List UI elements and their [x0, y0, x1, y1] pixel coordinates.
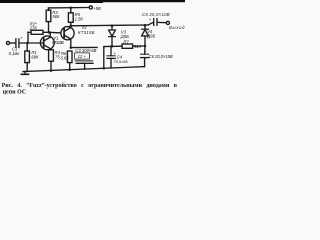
svg-text:R7: R7	[123, 39, 129, 44]
svg-text:Выход: Выход	[169, 25, 185, 30]
svg-text:+9В: +9В	[93, 6, 101, 11]
svg-text:Д9Б: Д9Б	[146, 34, 155, 39]
svg-text:КТ315Б: КТ315Б	[78, 30, 95, 35]
svg-text:3,6К: 3,6К	[60, 55, 69, 60]
svg-text:27К: 27К	[29, 26, 38, 31]
svg-text:Д9Б: Д9Б	[120, 34, 129, 39]
svg-text:С3 300×6В: С3 300×6В	[75, 48, 96, 53]
svg-text:70,5×6Б: 70,5×6Б	[114, 60, 129, 64]
svg-text:Рис. 4. “Fuzz”-устройство с ог: Рис. 4. “Fuzz”-устройство с ограничитель…	[2, 82, 178, 89]
svg-text:56К: 56К	[52, 14, 60, 19]
svg-text:С4: С4	[117, 54, 123, 59]
svg-text:68К: 68К	[31, 55, 39, 60]
svg-text:С5 20,0×10В: С5 20,0×10В	[142, 12, 170, 17]
svg-text:1,5К: 1,5К	[75, 17, 84, 22]
svg-text:цепи ОС: цепи ОС	[3, 90, 27, 96]
svg-text:КТ315Б: КТ315Б	[52, 40, 64, 45]
svg-text:12 +: 12 +	[78, 54, 87, 59]
svg-text:51К: 51К	[134, 44, 142, 49]
svg-text:0,1мк: 0,1мк	[9, 51, 21, 56]
svg-text:С6 20,0×15В: С6 20,0×15В	[149, 54, 173, 59]
